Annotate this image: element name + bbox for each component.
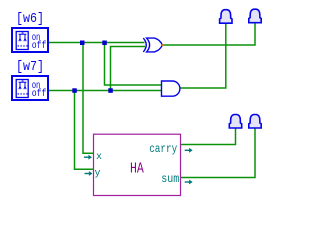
wire w7 drop to HA y input: [75, 91, 94, 170]
probe carry: [229, 115, 241, 129]
svg-text:off: off: [32, 40, 47, 52]
probe at top-right (XOR output): [249, 9, 261, 23]
svg-text:x: x: [96, 152, 102, 163]
probe at top-left (AND output): [220, 10, 232, 24]
port arrow y: [85, 173, 90, 175]
xor output connection dot: [162, 44, 164, 46]
junction on w7 wire feeding HA y: [72, 88, 77, 93]
junction on w7 wire feeding XOR: [108, 88, 113, 93]
port arrow sum: [185, 181, 190, 183]
junction on w6 wire feeding AND: [102, 41, 107, 46]
switch w7 body: [12, 76, 48, 100]
xor gate back arc: [143, 38, 146, 52]
svg-text:[w6]: [w6]: [16, 11, 44, 27]
xor gate body: [147, 38, 163, 52]
wire to AND top input: [105, 43, 162, 86]
junction on w6 wire feeding HA x: [80, 41, 85, 46]
wire XOR output to top-right probe: [162, 23, 255, 45]
wire HA carry to probe: [181, 128, 236, 145]
svg-text:sum: sum: [161, 173, 179, 186]
and gate: [162, 81, 180, 96]
wire AND output to top-left probe: [181, 23, 226, 88]
wire w7 output horizontal: [49, 90, 162, 92]
wire w6 output horizontal: [49, 42, 145, 44]
switch w6 body: [12, 28, 48, 52]
wire w6 drop to HA x input: [83, 43, 94, 154]
svg-text:y: y: [95, 169, 101, 180]
svg-text:off: off: [32, 88, 47, 100]
svg-text:[w7]: [w7]: [16, 59, 44, 75]
module HA box: [94, 134, 181, 195]
port arrow carry: [185, 149, 190, 151]
port arrow x: [84, 156, 89, 158]
svg-text:HA: HA: [130, 162, 144, 178]
wire w7 up to XOR lower input: [111, 47, 146, 91]
probe sum: [249, 115, 261, 129]
wire HA sum to probe: [181, 128, 256, 178]
svg-text:carry: carry: [149, 143, 177, 156]
